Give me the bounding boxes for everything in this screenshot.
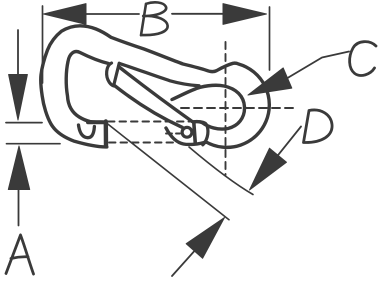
body inner top edge right of pivot <box>119 63 199 85</box>
body inner contour <box>66 52 108 123</box>
dim A down arrow <box>17 30 19 74</box>
rivet ring <box>182 127 192 137</box>
letter A <box>6 235 34 274</box>
gate pivot cap chord <box>114 63 119 84</box>
eye hole lobe + neck <box>172 85 245 129</box>
centerline horizontal through eye <box>181 107 294 109</box>
rivet centerline <box>166 133 180 135</box>
body outer contour <box>41 26 270 148</box>
gate end cap line <box>194 123 196 144</box>
dim D extension line 2 <box>107 123 230 220</box>
dim A lower extension line <box>7 143 61 145</box>
dim B left extension line <box>42 6 44 83</box>
centerline vertical through eye <box>225 42 227 175</box>
dim A upper extension line <box>6 122 42 124</box>
dim A up arrow <box>8 146 29 190</box>
dim C leader arrow <box>248 68 292 95</box>
dim B right extension line <box>269 7 271 70</box>
gate bar upper edge <box>120 68 193 122</box>
gate bar lower edge <box>114 85 183 127</box>
dim D arrow 1 <box>250 148 287 190</box>
dim D arrow 2 <box>186 218 224 259</box>
gate pivot cap arc <box>107 63 114 86</box>
hook tip top edge <box>88 120 105 124</box>
hook catch curl <box>79 125 95 138</box>
letter B <box>141 2 168 35</box>
letter D <box>304 110 333 143</box>
hidden line bottom level <box>109 142 177 144</box>
hidden line hook tip level <box>108 121 190 123</box>
hook tip right edge <box>104 122 109 146</box>
letter C <box>350 42 376 76</box>
dim D extension line 1 <box>189 147 253 195</box>
dim B right arrow <box>172 13 223 15</box>
dim B left arrow <box>44 4 87 25</box>
gate end block <box>194 122 208 145</box>
